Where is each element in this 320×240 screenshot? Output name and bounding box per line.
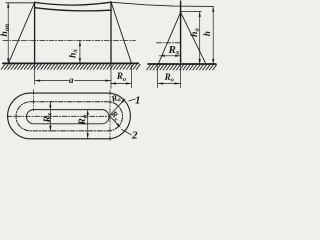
ground hatch [147, 65, 217, 70]
right guy wire [111, 2, 132, 64]
extension for h0 dimension [181, 11, 202, 13]
left guy (side view) [159, 12, 181, 63]
guy attachment node (side view) [180, 11, 182, 13]
dimension line h_op [7, 3, 9, 64]
callout leader 1 [129, 99, 136, 101]
h_x level line right (dash-dot) [157, 42, 181, 44]
dimension line a [35, 80, 111, 82]
lower wire (antenna) between masts [35, 8, 111, 11]
svg-text:2: 2 [131, 130, 138, 142]
svg-text:a: a [69, 75, 74, 85]
dimension line h [212, 6, 214, 64]
outer protection-zone contour (plan) [8, 93, 131, 139]
dimension line h0 [199, 12, 201, 65]
mast-left extension below ground [34, 63, 36, 84]
mast (side view) [180, 1, 182, 64]
mast side-view extension below ground [180, 64, 182, 88]
mast right (front view) [110, 2, 112, 64]
mast-right extension below ground [110, 63, 112, 88]
h_x level line (dash-dot) [3, 40, 136, 42]
callout leader 2 [122, 130, 132, 135]
extension line at left guy foot (side view) [157, 66, 159, 88]
antenna footprint (plan) [26, 110, 109, 124]
catenary top wire between masts [35, 2, 111, 5]
svg-text:h: h [202, 31, 212, 36]
dimension line R0 (side view) [158, 83, 181, 85]
extension line at right guy foot [130, 66, 132, 89]
right mast axis (plan) [109, 90, 111, 141]
dimension line R_x (plan) [49, 102, 51, 131]
left guy wire [8, 2, 34, 63]
dimension line h_x [79, 41, 81, 64]
svg-text:1: 1 [135, 94, 141, 106]
long top line from right mast to h dimension [111, 2, 213, 6]
mast left (front view) [34, 2, 36, 63]
radius arrow R0 to outer contour [109, 100, 124, 116]
dimension line R0 (left elevation) [110, 83, 131, 85]
dimension line R_x (side view) [159, 55, 180, 57]
ground (left elevation) [3, 62, 139, 64]
horizontal centre line (plan, dash-dot) [7, 115, 110, 117]
inner contour at height h_x (dash-dot, plan) [16, 102, 123, 131]
label a [69, 77, 74, 84]
left mast axis (plan) [33, 90, 35, 111]
ground hatch [1, 64, 140, 69]
ground (right elevation) [148, 63, 216, 65]
right guy (side view) [181, 12, 206, 64]
dimension line R0 (plan) [87, 110, 89, 139]
radius arrow R_x to inner contour [109, 116, 119, 127]
top extension line to h_op dimension [6, 2, 35, 4]
